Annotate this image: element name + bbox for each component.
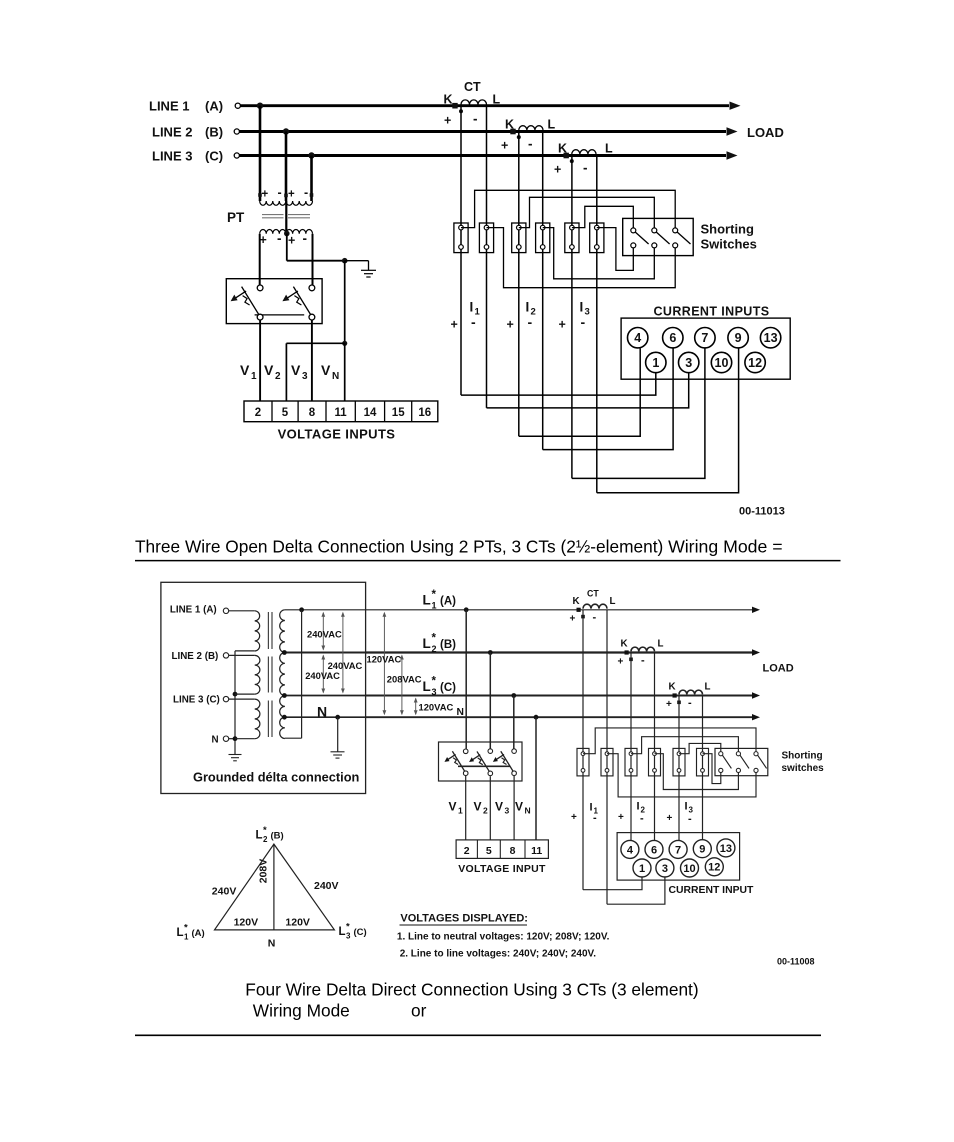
svg-text:11: 11 — [531, 845, 542, 857]
svg-text:L: L — [423, 636, 431, 651]
svg-text:14: 14 — [364, 407, 377, 419]
LINE3 input terminal — [223, 696, 254, 701]
svg-text:-: - — [593, 612, 597, 624]
svg-text:+: + — [667, 813, 673, 824]
svg-text:+: + — [288, 234, 295, 248]
voltage arrow 120VAC L3-N — [414, 698, 418, 716]
wire LINE1 tap to PT1 primary + — [257, 103, 263, 202]
wire LINE3 tap to PT2 primary - — [308, 152, 314, 201]
svg-text:16: 16 — [418, 407, 431, 419]
CT3 (bottom diagram) on L3 — [666, 682, 711, 711]
svg-text:8: 8 — [510, 845, 516, 857]
svg-text:00-11008: 00-11008 — [777, 957, 815, 967]
wire I2+ to terminal 4 — [519, 348, 640, 436]
PT2 primary winding — [284, 186, 313, 206]
xfmr primary winding P2 — [255, 655, 260, 694]
svg-text:LINE 3: LINE 3 — [152, 149, 192, 164]
voltage arrow 240VAC L1-L3 — [341, 612, 345, 694]
current input terminal 6 — [663, 328, 683, 348]
wire terminal 1 to I1+ (bottom) — [583, 877, 642, 890]
svg-text:1: 1 — [184, 932, 189, 941]
svg-text:2: 2 — [464, 845, 470, 857]
svg-text:K: K — [444, 93, 453, 107]
wire L3 tap to fuse — [511, 693, 516, 749]
wire I3- to terminal 9 — [597, 348, 739, 493]
xfmr secondary winding S1 — [280, 610, 285, 653]
svg-text:1: 1 — [639, 863, 645, 875]
wire LINE2 drop through PT core to center tap — [285, 201, 287, 234]
svg-text:L: L — [423, 593, 431, 608]
svg-text:I: I — [526, 300, 530, 315]
node delta corner B — [282, 650, 287, 655]
svg-text:1: 1 — [251, 371, 257, 382]
svg-text:(A): (A) — [440, 596, 456, 608]
svg-text:Switches: Switches — [701, 237, 757, 252]
node secondary center tap N — [282, 715, 287, 720]
wire CT2 K (I2+) drop — [518, 132, 520, 437]
svg-text:V: V — [449, 800, 457, 814]
current input terminal 3 (bottom) — [656, 859, 674, 877]
xfmr secondary winding S3 — [280, 696, 285, 739]
svg-text:4: 4 — [634, 331, 641, 345]
svg-text:-: - — [583, 161, 588, 176]
svg-text:K: K — [621, 639, 628, 650]
shorting switch S2 — [652, 228, 670, 248]
svg-text:N: N — [268, 938, 276, 950]
wire L2 bus — [366, 649, 760, 655]
svg-text:+: + — [618, 657, 624, 668]
wire LINE1 phase bus — [235, 102, 740, 110]
wire CT1 K (I1+) drop — [460, 106, 462, 395]
svg-text:120VAC: 120VAC — [419, 702, 454, 713]
svg-text:L: L — [605, 142, 613, 156]
svg-text:V: V — [474, 800, 482, 814]
svg-text:(B): (B) — [271, 831, 284, 842]
svg-text:Shorting: Shorting — [701, 222, 754, 237]
svg-text:N: N — [317, 704, 327, 720]
wire terminal 3 to I1- (bottom) — [607, 877, 665, 905]
svg-text:-: - — [471, 314, 476, 330]
svg-text:LINE 2 (B): LINE 2 (B) — [172, 651, 219, 662]
LINE2 input terminal — [223, 653, 254, 658]
wire fuse F2 to terminal 8 (V3) — [311, 320, 313, 401]
svg-text:208V: 208V — [258, 859, 270, 884]
svg-text:2: 2 — [432, 644, 437, 654]
svg-text:Wiring Mode: Wiring Mode — [253, 1001, 350, 1021]
node V2/VN tie junction — [342, 341, 347, 346]
shorting switch S3 — [673, 228, 691, 248]
current input terminal 9 — [728, 328, 748, 348]
svg-text:+: + — [288, 189, 295, 201]
svg-text:13: 13 — [720, 843, 732, 855]
svg-text:+: + — [571, 812, 577, 823]
wire TB4 jumper to switch S2 bottom — [543, 228, 655, 279]
wire fuse2 to terminal 5 — [489, 776, 491, 840]
svg-text:-: - — [688, 697, 692, 709]
voltage arrow 240VAC L2-L3 — [321, 655, 325, 694]
svg-text:(C): (C) — [440, 682, 456, 694]
wire N bus — [366, 714, 760, 720]
svg-text:120V: 120V — [234, 917, 259, 929]
wire fuse F1 to terminal 2 (V1) — [259, 320, 261, 401]
wire N inside box — [284, 716, 365, 718]
wire fuse1 to terminal 2 — [465, 776, 467, 840]
current input terminal 10 — [711, 352, 731, 372]
svg-text:240V: 240V — [212, 885, 237, 897]
svg-text:*: * — [432, 589, 437, 601]
svg-text:13: 13 — [764, 331, 778, 345]
voltage input strip (bottom) — [456, 840, 548, 859]
svg-text:1. Line to neutral voltages: 1: 1. Line to neutral voltages: 120V; 208V;… — [397, 931, 610, 942]
CT1 current transformer on LINE1 — [444, 80, 501, 128]
ground symbol — [345, 261, 376, 277]
shorting terminal block TB5 (bottom) — [673, 748, 685, 776]
wire CT2 K drop (I2+) — [630, 653, 632, 842]
wire LINE3 phase bus — [234, 151, 737, 159]
svg-text:3: 3 — [585, 307, 590, 318]
rule under top caption — [135, 560, 841, 562]
svg-text:2. Line to line voltages: 240V: 2. Line to line voltages: 240V; 240V; 24… — [400, 948, 597, 959]
wire CT2 L (I2-) drop — [542, 132, 544, 450]
wire I1- to terminal 3 — [487, 373, 689, 408]
fuse F2 (bottom) — [469, 749, 493, 776]
LINE1 input terminal — [223, 608, 254, 613]
svg-text:N: N — [525, 806, 531, 816]
svg-text:L: L — [423, 679, 431, 694]
svg-text:-: - — [688, 813, 692, 825]
current input terminal 12 (bottom) — [705, 858, 723, 876]
svg-text:240V: 240V — [314, 880, 339, 892]
wire S1 top to L1 bus — [285, 609, 302, 611]
wire I2- to terminal 6 — [543, 348, 673, 449]
wire L1 bus — [366, 607, 760, 613]
svg-text:L: L — [493, 93, 501, 107]
svg-text:V: V — [291, 362, 301, 378]
svg-text:Four Wire Delta Direct Connect: Four Wire Delta Direct Connection Using … — [245, 980, 698, 1000]
svg-text:CT: CT — [464, 80, 481, 94]
current input terminal 3 — [679, 352, 699, 372]
wire TB2 jumper to switch S3 bottom — [487, 228, 676, 288]
svg-text:Three Wire Open Delta Connecti: Three Wire Open Delta Connection Using 2… — [135, 537, 783, 557]
current input terminal 1 (bottom) — [633, 859, 651, 877]
fuse F2 blade — [282, 287, 310, 315]
svg-text:1: 1 — [652, 356, 659, 370]
wire TB2 jumper to switch S3 bottom (bottom) — [607, 754, 756, 797]
svg-text:+: + — [559, 318, 566, 332]
shorting terminal block TB4 (bottom) — [649, 748, 661, 776]
PT1 primary winding — [258, 186, 286, 206]
svg-text:K: K — [573, 596, 580, 607]
wire junction to terminal 5 (V2) — [286, 343, 344, 401]
svg-text:3: 3 — [685, 356, 692, 370]
shorting switch S1 — [631, 228, 649, 248]
wire PT secondary center tap to ground junction — [284, 231, 345, 261]
svg-text:6: 6 — [669, 331, 676, 345]
xfmr primary winding P1 — [255, 611, 260, 651]
current input terminal 13 (bottom) — [717, 839, 735, 857]
fuse F1 blade — [231, 287, 259, 315]
shorting switch S2 (bottom) — [736, 752, 749, 773]
wire CT1 K drop (I1+) — [582, 610, 584, 890]
svg-text:3: 3 — [302, 371, 308, 382]
svg-text:208VAC: 208VAC — [387, 673, 422, 684]
svg-text:-: - — [277, 231, 282, 246]
current input box (bottom) — [617, 833, 740, 881]
wire CT1 L (I1-) drop — [486, 106, 488, 408]
fuse F3 (bottom) — [493, 749, 517, 776]
shorting switch S3 (bottom) — [754, 752, 767, 773]
svg-text:I: I — [637, 801, 640, 813]
svg-text:7: 7 — [701, 331, 708, 345]
wire TB4 jumper to switch S2 bottom (bottom) — [655, 754, 739, 790]
svg-text:V: V — [495, 800, 503, 814]
svg-text:VOLTAGE INPUTS: VOLTAGE INPUTS — [278, 427, 396, 442]
svg-text:120VAC: 120VAC — [367, 653, 402, 664]
svg-text:8: 8 — [309, 407, 316, 419]
wire TB6 jumper to switch S1 bottom (bottom) — [703, 754, 721, 784]
svg-text:10: 10 — [715, 356, 729, 370]
fuse F1 (bottom) — [444, 749, 468, 776]
wire CT3 L (I3-) drop — [596, 156, 598, 493]
wire L2 inside box — [284, 652, 365, 654]
svg-text:L: L — [610, 596, 616, 607]
svg-text:4: 4 — [627, 844, 634, 856]
xfmr core bars — [268, 612, 272, 737]
current input terminal 4 — [628, 328, 648, 348]
svg-text:2: 2 — [275, 371, 281, 382]
svg-text:CT: CT — [587, 589, 599, 599]
ground symbol (xfmr primary) — [229, 755, 242, 761]
shorting terminal block TB2 — [479, 223, 493, 253]
svg-text:7: 7 — [675, 844, 681, 856]
wire TB5 jumper to switch S1 top — [572, 206, 633, 228]
wire TB6 jumper to switch S1 bottom — [597, 228, 634, 271]
svg-text:(A): (A) — [192, 928, 205, 939]
svg-text:5: 5 — [486, 845, 492, 857]
wire delta closing (A to S3 bottom) — [285, 610, 302, 738]
CT2 current transformer on LINE2 — [501, 118, 556, 153]
svg-text:-: - — [528, 314, 533, 330]
svg-text:15: 15 — [392, 407, 405, 419]
svg-text:10: 10 — [683, 863, 695, 875]
wire N tap to terminal 11 — [534, 715, 539, 840]
wire L2 tap to fuse — [488, 650, 493, 749]
svg-text:or: or — [411, 1001, 427, 1021]
wire LINE2 phase bus — [234, 127, 737, 135]
svg-text:+: + — [507, 318, 514, 332]
svg-text:2: 2 — [255, 407, 261, 419]
current input terminal 7 — [695, 328, 715, 348]
svg-text:+: + — [554, 163, 561, 177]
shorting switches box (bottom) — [715, 748, 768, 775]
svg-text:00-11013: 00-11013 — [739, 506, 785, 518]
svg-text:Grounded délta connection: Grounded délta connection — [193, 770, 360, 785]
wire fuse3 to terminal 8 — [513, 776, 515, 840]
svg-text:N: N — [457, 707, 464, 718]
svg-text:-: - — [640, 813, 644, 825]
node delta corner C — [282, 693, 287, 698]
svg-text:-: - — [473, 112, 478, 127]
voltage arrow 240VAC L1-L2 — [321, 612, 325, 651]
wire P2 bottom junction — [233, 692, 255, 697]
shorting terminal block TB6 (bottom) — [697, 748, 709, 776]
svg-text:1: 1 — [432, 601, 437, 611]
svg-text:I: I — [470, 300, 474, 315]
svg-text:11: 11 — [335, 407, 348, 419]
svg-text:240VAC: 240VAC — [307, 629, 342, 640]
ground symbol (secondary N) — [331, 752, 345, 758]
wire junction to terminal 11 (VN) — [344, 343, 346, 401]
wire CT2 L drop (I2-) — [654, 653, 656, 842]
voltage arrow 208VAC L2-N — [400, 655, 404, 716]
svg-text:5: 5 — [282, 407, 289, 419]
svg-text:+: + — [444, 114, 451, 128]
svg-text:-: - — [304, 186, 308, 200]
svg-text:V: V — [321, 362, 331, 378]
wire CT3 K (I3+) drop — [571, 156, 573, 479]
wire CT3 K drop (I3+) — [678, 696, 680, 842]
wire L3 bus — [366, 692, 760, 698]
svg-text:LOAD: LOAD — [747, 125, 784, 140]
svg-text:CURRENT INPUT: CURRENT INPUT — [669, 885, 755, 896]
svg-text:(B): (B) — [205, 125, 223, 140]
voltage arrow 120VAC L1-N — [383, 612, 387, 715]
current input terminal 7 (bottom) — [669, 840, 687, 858]
shorting switch S1 (bottom) — [719, 752, 732, 773]
svg-text:V: V — [240, 362, 250, 378]
current input terminal 12 — [745, 352, 765, 372]
svg-text:-: - — [278, 186, 282, 200]
grounded delta transformer box — [161, 582, 366, 793]
svg-text:(C): (C) — [354, 927, 367, 938]
svg-text:2: 2 — [263, 835, 268, 844]
svg-text:LINE 2: LINE 2 — [152, 125, 192, 140]
wire CT1 L drop (I1-) — [606, 610, 608, 904]
svg-text:V: V — [515, 800, 523, 814]
svg-text:9: 9 — [699, 844, 705, 856]
svg-text:L: L — [705, 682, 711, 693]
svg-text:VOLTAGES DISPLAYED:: VOLTAGES DISPLAYED: — [400, 913, 528, 925]
svg-text:12: 12 — [708, 862, 720, 874]
wire L3 inside box — [284, 695, 365, 697]
shorting terminal block TB4 — [536, 223, 550, 253]
CT2 (bottom diagram) on L2 — [618, 639, 664, 668]
wire I3+ to terminal 7 — [572, 348, 705, 478]
svg-text:3: 3 — [432, 687, 437, 697]
fuse box (voltage input fuses) — [226, 279, 322, 324]
svg-text:12: 12 — [748, 356, 762, 370]
wire P3 bottom junction — [233, 736, 255, 741]
svg-text:2: 2 — [483, 806, 488, 816]
shorting terminal block TB1 (bottom) — [577, 748, 589, 776]
svg-text:3: 3 — [662, 863, 668, 875]
xfmr secondary winding S2 — [280, 653, 285, 696]
wire L1 inside box — [302, 609, 366, 611]
wire N tap ground — [335, 715, 340, 752]
wire ground junction down to VN — [344, 261, 346, 344]
svg-text:-: - — [303, 231, 308, 246]
svg-text:LINE 3 (C): LINE 3 (C) — [173, 694, 220, 705]
svg-text:3: 3 — [505, 806, 510, 816]
svg-text:PT: PT — [227, 210, 245, 225]
CT1 (bottom diagram) on L1 — [570, 589, 616, 625]
wire PT2 secondary - to fuse box — [312, 234, 314, 285]
fuse F1 terminals — [257, 285, 263, 320]
svg-text:+: + — [666, 699, 672, 710]
wire I1+ to terminal 1 — [461, 373, 656, 395]
svg-text:6: 6 — [651, 844, 657, 856]
wire TB1 jumper to switch S3 top — [461, 190, 675, 228]
current inputs box — [621, 318, 790, 379]
voltage input terminal strip — [244, 401, 438, 422]
svg-text:N: N — [332, 371, 339, 382]
svg-text:9: 9 — [735, 331, 742, 345]
svg-text:L: L — [548, 118, 556, 132]
shorting terminal block TB3 — [512, 223, 526, 253]
svg-text:(A): (A) — [205, 99, 223, 114]
wire PT1 secondary + to fuse box — [259, 234, 261, 285]
svg-text:+: + — [570, 614, 576, 625]
svg-text:+: + — [262, 189, 269, 201]
svg-text:+: + — [451, 318, 458, 332]
svg-text:240VAC: 240VAC — [305, 670, 340, 681]
CT3 current transformer on LINE3 — [554, 142, 613, 177]
svg-text:L: L — [339, 926, 346, 938]
fuse F2 terminals — [309, 285, 315, 320]
wire TB1 jumper to switch S3 top (bottom) — [583, 728, 756, 754]
shorting terminal block TB6 — [590, 223, 604, 253]
svg-text:LINE 1 (A): LINE 1 (A) — [170, 605, 217, 616]
svg-text:+: + — [618, 812, 624, 823]
svg-text:*: * — [432, 633, 437, 645]
fuse link bar (bottom) — [458, 765, 510, 767]
PT2 secondary winding — [286, 230, 312, 248]
current input terminal 4 (bottom) — [621, 840, 639, 858]
current input terminal 10 (bottom) — [681, 859, 699, 877]
svg-text:Shorting: Shorting — [782, 751, 823, 762]
svg-text:CURRENT INPUTS: CURRENT INPUTS — [653, 305, 769, 319]
svg-text:-: - — [581, 314, 586, 330]
shorting terminal block TB5 — [565, 223, 579, 253]
svg-text:LOAD: LOAD — [763, 663, 794, 675]
wire P1 bottom to primary neutral — [235, 651, 255, 754]
wire LINE2 tap to PT primaries — [283, 128, 289, 201]
PT core bars — [262, 215, 310, 218]
node delta corner A — [299, 607, 304, 612]
wire TB3 jumper to switch S2 top (bottom) — [631, 737, 738, 754]
svg-text:(C): (C) — [205, 149, 223, 164]
svg-text:K: K — [669, 682, 676, 693]
svg-text:-: - — [593, 812, 597, 824]
PT1 secondary winding — [260, 229, 286, 247]
wire CT3 L drop (I3-) — [702, 696, 704, 842]
current input terminal 1 — [646, 352, 666, 372]
shorting terminal block TB2 (bottom) — [601, 748, 613, 776]
svg-text:L: L — [256, 830, 263, 842]
svg-text:L: L — [658, 639, 664, 650]
xfmr primary winding P3 — [255, 699, 260, 739]
svg-text:-: - — [528, 137, 533, 152]
N input terminal — [223, 736, 235, 741]
svg-text:N: N — [212, 734, 219, 745]
wire L1 tap to fuse — [464, 607, 469, 749]
current input terminal 6 (bottom) — [645, 840, 663, 858]
phasor triangle — [215, 844, 335, 930]
svg-text:120V: 120V — [285, 917, 310, 929]
svg-text:*: * — [432, 676, 437, 688]
svg-text:-: - — [641, 655, 645, 667]
shorting terminal block TB1 — [454, 223, 468, 253]
